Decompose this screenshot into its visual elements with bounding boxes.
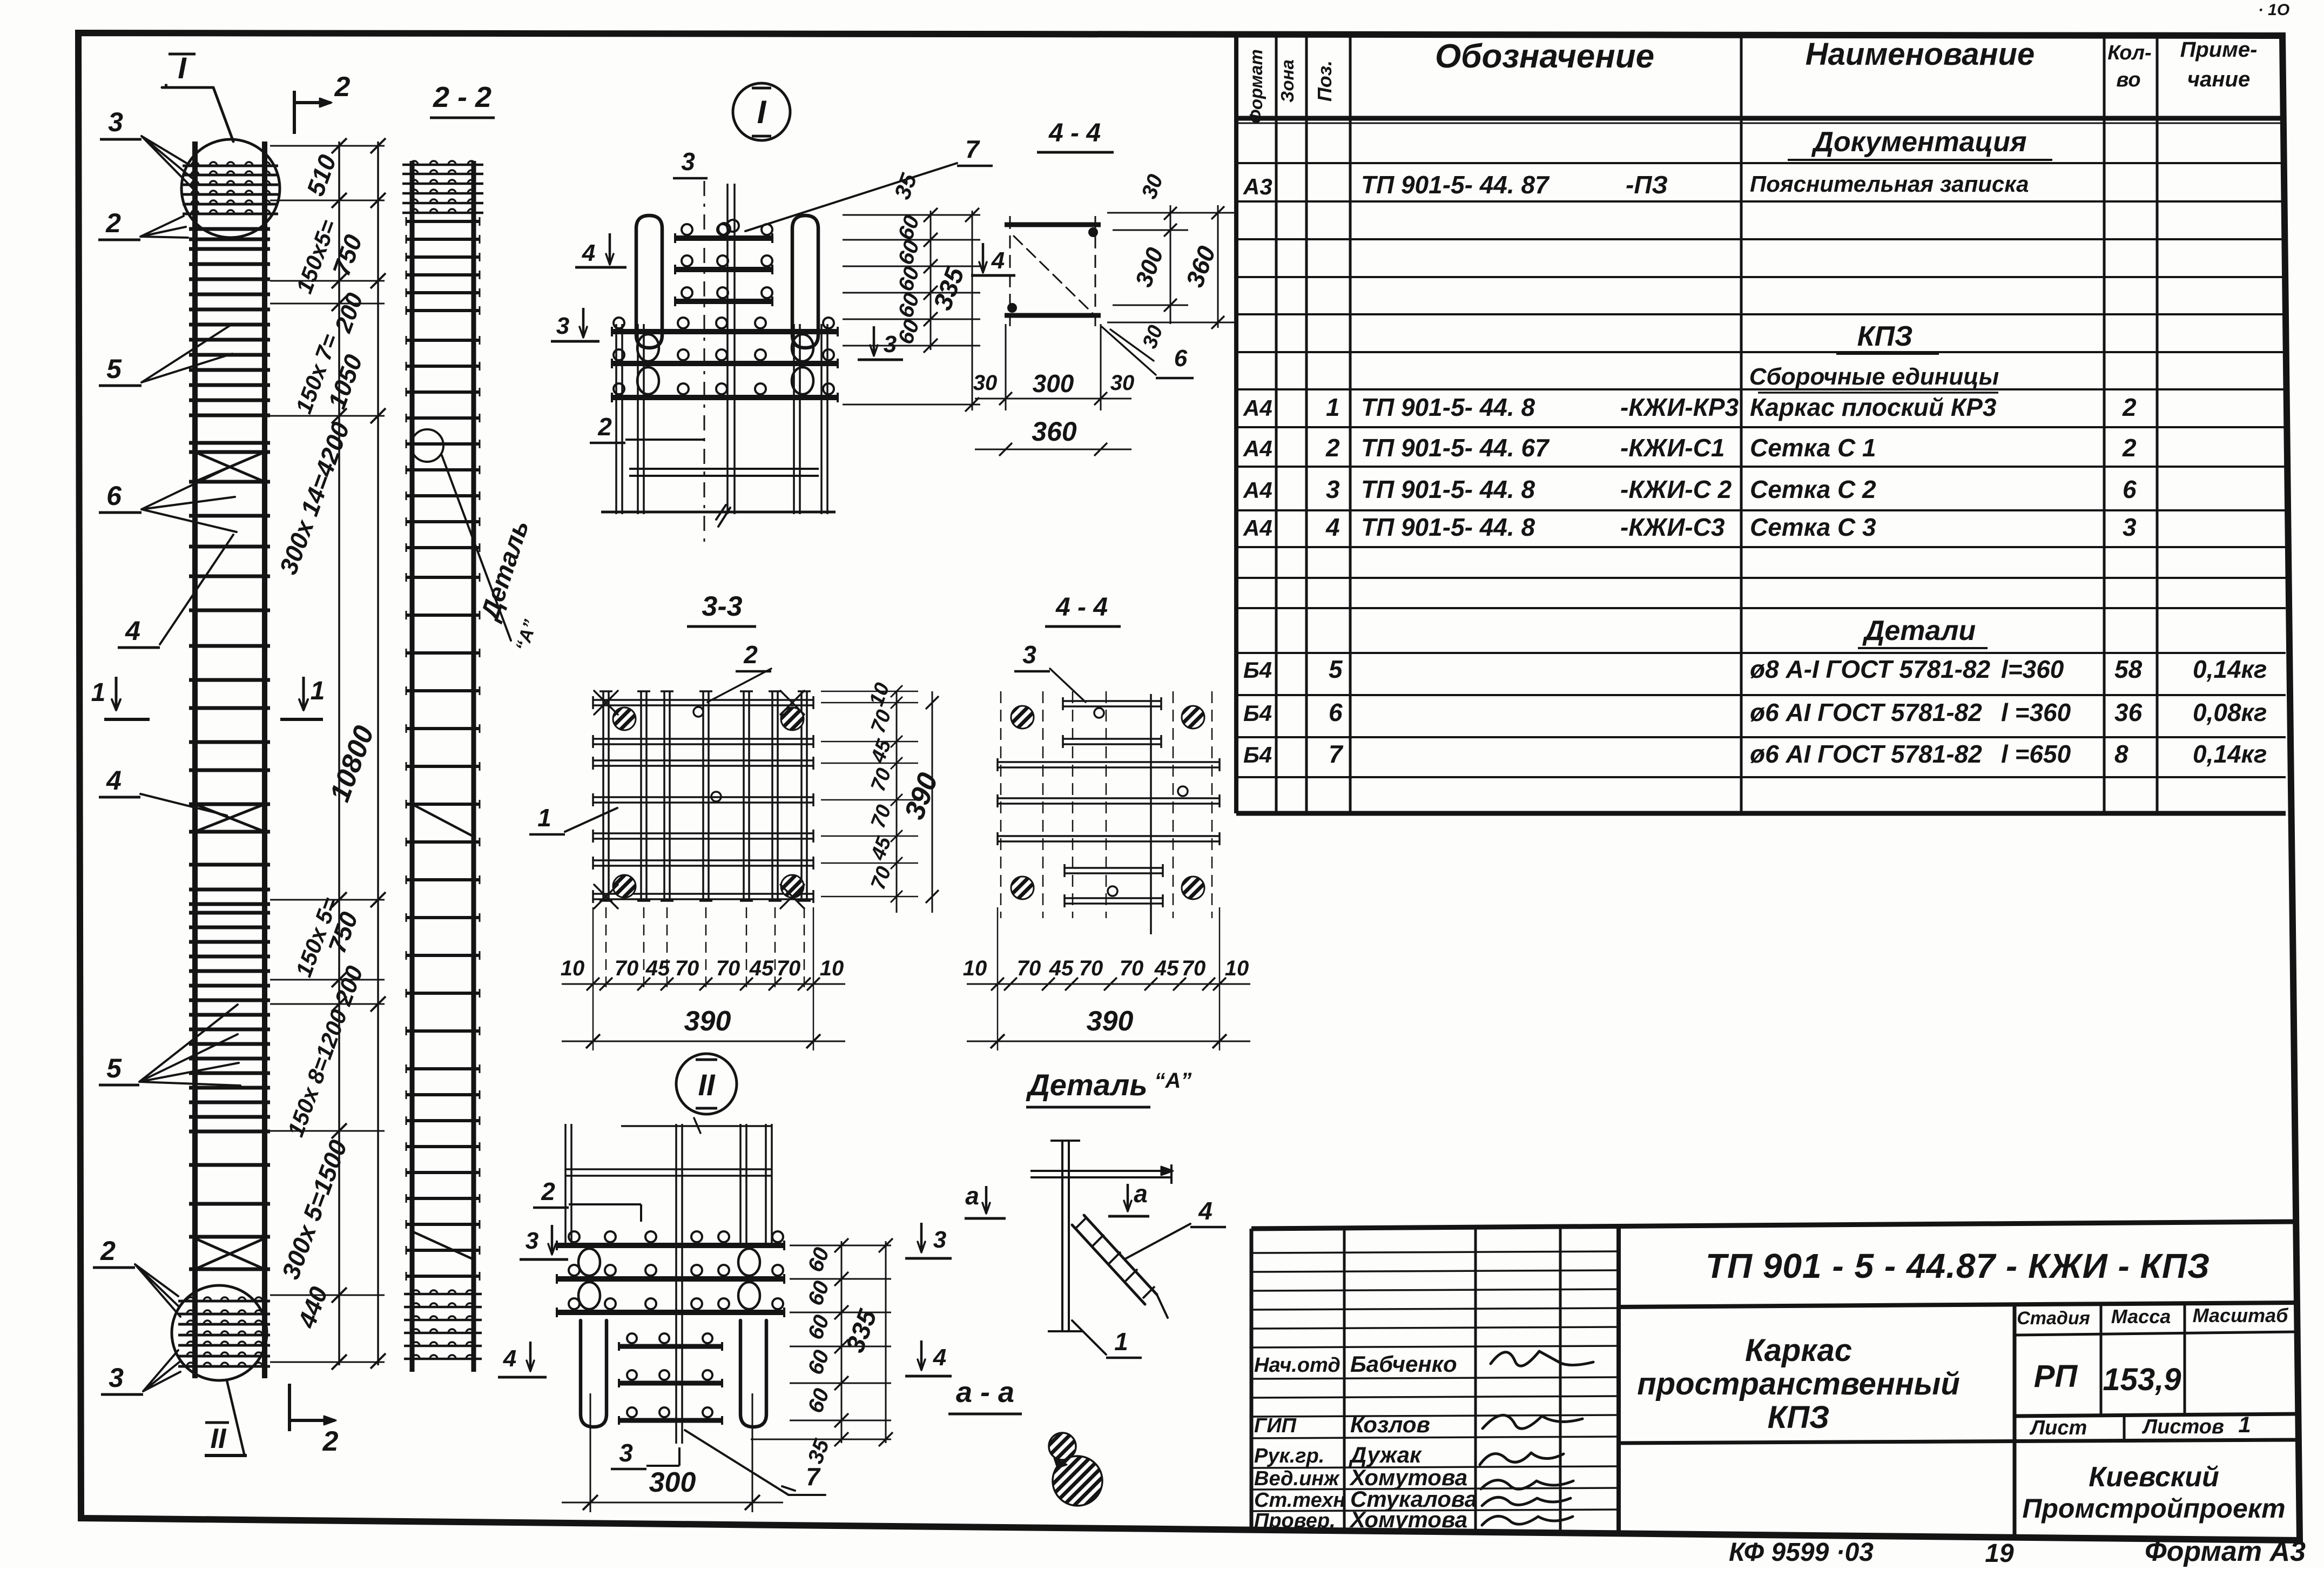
svg-text:ø8 А-I ГОСТ 5781-82: ø8 А-I ГОСТ 5781-82 (1750, 655, 1991, 683)
ladder1 right rail (262, 141, 267, 1378)
svg-text:Листов: Листов (2141, 1416, 2224, 1438)
svg-text:II: II (211, 1423, 227, 1454)
svg-text:во: во (2116, 69, 2140, 91)
svg-text:-КЖИ-С3: -КЖИ-С3 (1620, 513, 1725, 541)
svg-text:7: 7 (1329, 740, 1344, 768)
svg-text:Провер.: Провер. (1254, 1510, 1336, 1532)
svg-text:0,14кг: 0,14кг (2193, 740, 2267, 768)
mesh 3-3 hatched corner circles (613, 707, 636, 730)
ladder2 detail circle marker (411, 429, 443, 462)
mesh 3-3 bottom extension lines (605, 907, 607, 988)
svg-text:2: 2 (743, 641, 758, 669)
svg-text:45: 45 (1049, 956, 1074, 980)
svg-text:А4: А4 (1243, 515, 1272, 541)
ladder1 bottom dense mesh (178, 1300, 270, 1303)
svg-text:а: а (965, 1182, 979, 1210)
svg-text:4: 4 (1325, 513, 1340, 541)
svg-text:ТП 901-5- 44. 8: ТП 901-5- 44. 8 (1361, 475, 1535, 503)
svg-text:А4: А4 (1243, 477, 1272, 503)
svg-text:58: 58 (2114, 655, 2143, 683)
svg-text:Дужак: Дужак (1349, 1442, 1422, 1467)
ladder2 rungs (406, 220, 480, 223)
svg-text:Хомутова: Хомутова (1349, 1507, 1467, 1532)
node II dim extension lines (790, 1245, 891, 1246)
svg-text:КПЗ: КПЗ (1768, 1400, 1830, 1435)
node II bubble (label) (676, 1054, 737, 1114)
svg-text:Деталь: Деталь (1026, 1068, 1147, 1102)
svg-text:3: 3 (108, 107, 123, 137)
svg-text:6: 6 (1329, 698, 1343, 726)
node I bar cross ovals (637, 334, 659, 361)
svg-text:2: 2 (105, 208, 121, 238)
svg-text:ø6 АI ГОСТ 5781-82: ø6 АI ГОСТ 5781-82 (1750, 740, 1982, 768)
specification table grid (1234, 36, 1238, 813)
svg-text:· 1О: · 1О (2258, 1, 2289, 19)
svg-text:I: I (757, 94, 767, 130)
svg-text:пространственный: пространственный (1637, 1366, 1960, 1401)
detail A diagonal bar with hatch (1072, 1215, 1157, 1304)
svg-text:Сетка С 2: Сетка С 2 (1750, 475, 1876, 503)
ladder2 diagonal brace 1 (412, 804, 474, 837)
svg-text:ГИП: ГИП (1254, 1414, 1297, 1437)
svg-text:3: 3 (1022, 641, 1036, 669)
svg-text:Наименование: Наименование (1806, 37, 2035, 72)
title block stage/mass/scale (2013, 1305, 2017, 1537)
node I bottom horizontals (629, 468, 819, 470)
signature table rows (1251, 1251, 1619, 1253)
mesh 4-4 horizontal bars (1063, 700, 1161, 702)
node II mesh rows (557, 1243, 784, 1248)
svg-text:3: 3 (109, 1363, 124, 1393)
svg-text:Козлов: Козлов (1350, 1412, 1430, 1437)
svg-text:КФ 9599 ·03: КФ 9599 ·03 (1729, 1538, 1874, 1567)
node I top mesh bars (675, 235, 772, 241)
mesh 3-3 dim 390 (562, 1041, 845, 1042)
svg-text:2 - 2: 2 - 2 (433, 81, 491, 113)
svg-text:70: 70 (1182, 956, 1206, 980)
node I bubble (733, 83, 790, 140)
svg-text:Кол-: Кол- (2107, 42, 2151, 64)
svg-text:70: 70 (675, 956, 699, 980)
section 4-4 right dim 360 (1217, 205, 1219, 328)
svg-text:Стадия: Стадия (2017, 1308, 2090, 1329)
svg-text:Сетка С 1: Сетка С 1 (1750, 434, 1876, 462)
svg-text:2: 2 (322, 1426, 339, 1457)
svg-text:Б4: Б4 (1243, 742, 1272, 767)
ladder1 left rail (192, 141, 198, 1378)
dimension chain B (outer) (377, 141, 379, 1365)
svg-text:-ПЗ: -ПЗ (1626, 171, 1668, 199)
svg-text:4: 4 (503, 1345, 516, 1372)
svg-text:8: 8 (2114, 740, 2128, 768)
node I right bar (792, 215, 818, 348)
svg-text:Документация: Документация (1811, 126, 2026, 158)
svg-text:Б4: Б4 (1243, 700, 1272, 726)
section 4-4 top extension and 30 dim (1107, 212, 1234, 214)
ladder1 top dense mesh (183, 165, 278, 167)
svg-text:3: 3 (526, 1228, 538, 1254)
section 4-4 square (1005, 223, 1101, 227)
svg-text:ТП 901-5- 44. 87: ТП 901-5- 44. 87 (1361, 171, 1550, 199)
svg-text:4: 4 (582, 240, 595, 266)
svg-text:ТП 901-5- 44. 8: ТП 901-5- 44. 8 (1361, 393, 1535, 421)
svg-text:70: 70 (1120, 956, 1144, 980)
signature table columns (1343, 1228, 1346, 1532)
svg-text:30: 30 (1110, 371, 1135, 395)
svg-text:390: 390 (1087, 1006, 1134, 1037)
svg-text:3: 3 (681, 147, 695, 176)
svg-text:45: 45 (1154, 956, 1179, 980)
svg-text:19: 19 (1985, 1539, 2014, 1567)
svg-text:70: 70 (716, 956, 740, 980)
svg-text:153,9: 153,9 (2103, 1362, 2181, 1397)
svg-text:4 - 4: 4 - 4 (1055, 593, 1108, 622)
svg-text:ТП 901-5- 44. 8: ТП 901-5- 44. 8 (1361, 513, 1535, 541)
svg-text:Рук.гр.: Рук.гр. (1254, 1445, 1324, 1467)
svg-text:4: 4 (991, 247, 1005, 274)
mesh 3-3 right dim chain (896, 691, 898, 913)
mesh 3-3 corner tie crosses (594, 691, 618, 715)
svg-text:3: 3 (2123, 513, 2137, 541)
node I dim 335 (972, 211, 973, 410)
svg-text:3: 3 (619, 1439, 633, 1467)
svg-text:1: 1 (311, 677, 325, 705)
svg-text:7: 7 (965, 135, 980, 163)
svg-text:10: 10 (1225, 956, 1249, 980)
svg-text:а: а (1134, 1180, 1148, 1208)
ladder1 top detail circle (узел I bubble) (181, 139, 280, 238)
svg-text:l =360: l =360 (2001, 698, 2071, 726)
svg-text:Киевский: Киевский (2089, 1461, 2219, 1493)
svg-text:Каркас: Каркас (1745, 1333, 1852, 1368)
node I full mesh rows (612, 329, 838, 334)
svg-text:3: 3 (1326, 475, 1340, 503)
detail A vertical bar (1061, 1141, 1063, 1331)
svg-text:Лист: Лист (2029, 1417, 2087, 1439)
svg-text:5: 5 (106, 354, 122, 384)
node I center vertical pair (726, 184, 729, 514)
node II dim chain 60s (841, 1241, 843, 1443)
svg-text:Формат А3: Формат А3 (2145, 1536, 2306, 1567)
svg-text:чание: чание (2187, 68, 2250, 91)
svg-text:-КЖИ-С1: -КЖИ-С1 (1620, 434, 1725, 462)
signature squiggles (1491, 1351, 1593, 1366)
svg-text:I: I (178, 51, 187, 85)
mesh 4-4 bottom dims (967, 983, 1250, 985)
svg-text:0,08кг: 0,08кг (2193, 698, 2267, 726)
svg-text:Нач.отд: Нач.отд (1254, 1354, 1340, 1377)
ladder1 X brace 3 (195, 1238, 265, 1269)
svg-text:А3: А3 (1243, 174, 1272, 199)
svg-text:Бабченко: Бабченко (1350, 1351, 1457, 1377)
title block outline (1251, 1222, 2295, 1229)
node II center vertical pair lower (675, 1248, 677, 1444)
detail A top plate (1030, 1170, 1171, 1172)
svg-text:4: 4 (933, 1344, 946, 1371)
svg-text:1: 1 (91, 678, 106, 707)
svg-text:300: 300 (649, 1467, 696, 1498)
svg-text:А4: А4 (1243, 436, 1272, 461)
mesh 4-4 solid vertical (1150, 694, 1152, 934)
svg-text:6: 6 (1174, 345, 1188, 372)
svg-text:45: 45 (749, 956, 774, 980)
svg-text:70: 70 (1017, 956, 1041, 980)
node I cut line 3-3 vertical (704, 181, 705, 544)
svg-text:45: 45 (645, 956, 670, 980)
svg-text:Каркас плоский КР3: Каркас плоский КР3 (1750, 393, 1997, 421)
svg-text:1: 1 (537, 804, 551, 832)
node I dimension extension lines (843, 214, 980, 216)
ladder1 X brace 1 (195, 452, 265, 482)
svg-text:Сетка С 3: Сетка С 3 (1750, 513, 1876, 541)
svg-text:360: 360 (1032, 416, 1077, 447)
svg-text:4: 4 (1198, 1197, 1212, 1225)
ladder2 left rail (410, 161, 415, 1372)
svg-text:Ст.техн: Ст.техн (1254, 1489, 1345, 1512)
svg-text:ø6 АI ГОСТ 5781-82: ø6 АI ГОСТ 5781-82 (1750, 698, 1982, 726)
svg-text:1: 1 (2238, 1412, 2251, 1437)
node II label 7 leader (685, 1430, 825, 1495)
title block: designation line (1619, 1303, 2295, 1307)
svg-text:1: 1 (1326, 393, 1340, 421)
svg-text:Масса: Масса (2111, 1305, 2171, 1328)
svg-text:6: 6 (2123, 475, 2137, 503)
mesh 3-3 dim row small (562, 983, 845, 985)
ladder1 bottom detail circle (узел II bubble) (172, 1285, 267, 1380)
svg-text:Пояснительная записка: Пояснительная записка (1750, 171, 2029, 197)
svg-text:II: II (698, 1068, 716, 1102)
ladder2 right rail (471, 161, 476, 1372)
title block sheet row (2015, 1414, 2295, 1416)
node I lower verticals (615, 324, 617, 514)
svg-text:Детали: Детали (1862, 615, 1976, 646)
svg-text:Приме-: Приме- (2180, 38, 2258, 62)
svg-text:4 - 4: 4 - 4 (1048, 119, 1101, 147)
svg-text:ТП 901-5- 44. 67: ТП 901-5- 44. 67 (1361, 434, 1550, 462)
svg-text:10: 10 (820, 956, 844, 980)
mesh 4-4 hatched circles (1011, 706, 1034, 729)
svg-text:Сборочные единицы: Сборочные единицы (1749, 363, 1999, 390)
section 4-4 bottom dims 30 300 30 (1005, 324, 1007, 410)
svg-text:Формат: Формат (1246, 49, 1266, 124)
svg-text:КПЗ: КПЗ (1857, 321, 1913, 352)
section flag 2 (bottom) (288, 1384, 291, 1431)
svg-text:300: 300 (1033, 369, 1074, 397)
svg-text:10: 10 (561, 956, 585, 980)
svg-text:2: 2 (2122, 434, 2137, 462)
svg-text:36: 36 (2114, 698, 2143, 726)
svg-text:70: 70 (777, 956, 801, 980)
svg-text:2: 2 (541, 1177, 555, 1205)
svg-text:“А”: “А” (1155, 1069, 1192, 1093)
svg-text:-КЖИ-КР3: -КЖИ-КР3 (1620, 393, 1739, 421)
node II small mesh rows (619, 1344, 722, 1349)
node I left bar (636, 215, 662, 348)
svg-text:1: 1 (1114, 1328, 1128, 1356)
ladder2 diagonal brace 2 (412, 1231, 474, 1259)
svg-text:2: 2 (334, 71, 351, 103)
svg-text:l =650: l =650 (2001, 740, 2071, 768)
svg-text:Зона: Зона (1277, 59, 1297, 103)
svg-text:РП: РП (2034, 1359, 2078, 1394)
node II bar cross ovals (578, 1249, 600, 1276)
svg-text:6: 6 (106, 481, 122, 511)
node II dim 335 (885, 1241, 887, 1443)
svg-text:4: 4 (106, 765, 122, 796)
svg-text:Промстройпроект: Промстройпроект (2022, 1493, 2285, 1524)
Деталь А rotated leader text (442, 455, 511, 641)
node I double hook circles at top (718, 223, 730, 235)
svg-text:3: 3 (933, 1227, 946, 1253)
svg-text:А4: А4 (1243, 395, 1272, 421)
node II bottom dim 300 (590, 1393, 591, 1512)
ladder2 bottom dense mesh (404, 1293, 482, 1296)
svg-text:3: 3 (556, 313, 569, 339)
svg-text:ТП 901 - 5 - 44.87 - КЖИ - КПЗ: ТП 901 - 5 - 44.87 - КЖИ - КПЗ (1706, 1246, 2210, 1285)
a-a hatched circles (1049, 1433, 1076, 1460)
svg-text:70: 70 (1079, 956, 1103, 980)
mesh 4-4 vertical dashed bars (1000, 691, 1002, 918)
ladder1 rungs (189, 227, 270, 231)
node II top verticals (564, 1124, 567, 1248)
svg-text:2: 2 (1325, 434, 1340, 462)
svg-text:Б4: Б4 (1243, 657, 1272, 683)
section flag 2 (top) (293, 91, 296, 134)
svg-text:4: 4 (125, 616, 140, 646)
svg-text:а - а: а - а (956, 1376, 1014, 1409)
svg-text:390: 390 (684, 1006, 731, 1037)
svg-text:5: 5 (106, 1053, 122, 1083)
ladder1 X brace 2 (195, 804, 265, 832)
mesh 3-3 vertical bars (602, 691, 604, 901)
svg-text:-КЖИ-С 2: -КЖИ-С 2 (1620, 475, 1732, 503)
node II top horizontal pair (565, 1168, 772, 1170)
svg-text:3-3: 3-3 (702, 591, 742, 622)
ladder2 top dense mesh (402, 164, 483, 166)
svg-text:Обозначение: Обозначение (1435, 38, 1654, 75)
svg-text:l=360: l=360 (2001, 655, 2064, 683)
svg-text:10: 10 (963, 956, 987, 980)
svg-text:Масштаб: Масштаб (2193, 1304, 2289, 1326)
svg-text:70: 70 (615, 956, 639, 980)
svg-text:2: 2 (597, 413, 612, 441)
node II rounded bars (581, 1320, 607, 1427)
svg-text:30: 30 (973, 371, 998, 395)
svg-text:2: 2 (100, 1236, 116, 1266)
svg-text:7: 7 (806, 1463, 821, 1491)
mesh 3-3 horizontal bars (593, 699, 813, 701)
svg-text:2: 2 (2122, 393, 2137, 421)
node I dim chain 60s (930, 211, 932, 350)
svg-text:Поз.: Поз. (1313, 60, 1336, 102)
svg-text:Вед.инж: Вед.инж (1254, 1467, 1340, 1490)
section 4-4 dim 360 bottom (975, 449, 1131, 450)
dimension chain A (inner) (338, 141, 340, 1365)
svg-text:5: 5 (1329, 655, 1343, 683)
svg-text:0,14кг: 0,14кг (2193, 655, 2267, 683)
